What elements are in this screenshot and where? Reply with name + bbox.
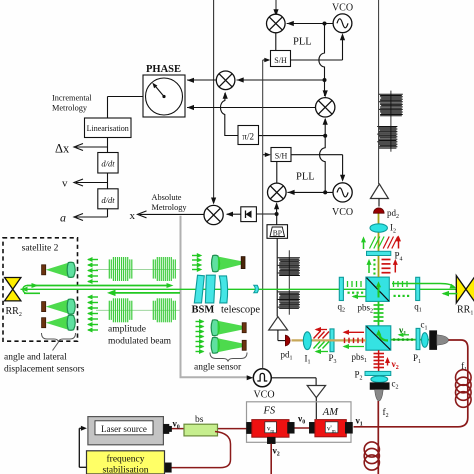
angle sensor 2 detector bar — [242, 340, 246, 350]
displacement sensor 3 lens — [67, 315, 75, 330]
fiber laser to FS — [169, 428, 248, 430]
wire J5 down to BP filter — [276, 214, 278, 225]
displacement sensor 2 detector bar — [42, 302, 46, 312]
P4 plate — [367, 251, 391, 255]
red beam below pbs1 — [378, 350, 380, 371]
Linearisation box — [85, 118, 132, 138]
fiber FS to AM — [289, 427, 316, 429]
spectrum hatch block left upper — [278, 258, 300, 276]
c2 lens — [371, 376, 388, 382]
laser source box — [88, 417, 163, 445]
frequency stabilisation box — [87, 451, 165, 474]
pbs1 cube — [366, 326, 391, 350]
fiber bs to freq stab — [171, 432, 231, 468]
angle sensor 1 detector bar — [242, 323, 246, 333]
VCO U9 (pulse) — [253, 369, 271, 387]
main beam line — [21, 288, 458, 290]
photodiode pd1 — [285, 335, 290, 346]
spectrum hatch block right upper — [379, 94, 403, 116]
svg-text:telescope: telescope — [221, 304, 260, 315]
displacement sensor 2 ray fan — [46, 300, 68, 314]
beam transmit line lower — [110, 292, 180, 294]
retroreflector RR2 — [5, 278, 21, 301]
svg-text:π/2: π/2 — [242, 132, 254, 142]
svg-text:d/dt: d/dt — [101, 159, 115, 169]
freq stab output connector — [163, 463, 171, 473]
mixer U1 (PLL1 phase detector) — [267, 14, 286, 33]
incoming wavefront arrows bottom group — [87, 295, 98, 333]
wire amplifier A1 to photodiode pd1 — [277, 330, 279, 341]
wire VCO U9 right to amplifier A3 — [271, 377, 316, 379]
beam between pbs2 and pbs1 — [378, 302, 380, 326]
svg-text:BSM: BSM — [192, 304, 215, 315]
wire J1 down to J2 with hop over S/H line — [319, 24, 325, 81]
fiber f2 vertical — [377, 401, 379, 474]
amplitude modulated packet 2a — [109, 298, 132, 322]
svg-text:BP: BP — [273, 228, 282, 237]
lateral sensor detector bar — [241, 257, 245, 269]
wire trigger into S/H B — [263, 154, 270, 156]
svg-text:S/H: S/H — [274, 56, 287, 65]
retroreflector RR1 — [456, 276, 474, 303]
spectrum stub line left — [288, 250, 290, 314]
AM modulator box — [315, 420, 346, 437]
wire mixer U5 output to PHASE at y=107.5 — [187, 107, 316, 109]
wire pd2 amplifier A2 long line up — [378, 0, 380, 184]
spectrum stub line right — [390, 91, 392, 152]
red diag hatch (I1-P3) — [314, 332, 330, 339]
BSM wedge 1 — [194, 275, 204, 303]
red arrow left (P3-pbs1) — [344, 331, 364, 333]
wire S/H B output to VCO U7 — [291, 154, 343, 156]
modulator outer box — [247, 402, 352, 443]
svg-text:VCO: VCO — [332, 3, 353, 14]
amplitude modulated packet 1a — [109, 257, 132, 281]
pbs2 cube — [366, 277, 389, 301]
svg-text:Metrology: Metrology — [52, 104, 88, 113]
mixer U3a (incremental) — [216, 71, 235, 90]
svg-text:angle sensor: angle sensor — [194, 362, 242, 372]
wire pi/2 box to J3 — [259, 135, 326, 137]
wire VCO U7 to mixer U8 — [287, 191, 333, 193]
c1 fiber collimator — [430, 331, 437, 350]
fiber f2 coil — [364, 442, 379, 470]
node J2 — [323, 78, 327, 82]
lateral sensor ray fan — [218, 257, 242, 271]
lateral sensor lens — [212, 255, 220, 271]
fiber f1 from c1 — [354, 340, 468, 427]
red up arrow (P4-pbs2) — [394, 261, 396, 273]
svg-text:stabilisation: stabilisation — [103, 465, 149, 474]
green diag hatch (I2-P4) — [370, 237, 385, 249]
wire amplifier A2 to photodiode pd2 — [378, 199, 380, 207]
RR2 beam U-turn — [23, 286, 27, 294]
green dashes between cubes — [374, 305, 384, 321]
a output arrow — [107, 209, 109, 217]
wire reference input line from top into mixer U4 — [213, 0, 215, 203]
svg-text:a: a — [60, 211, 66, 225]
angle sensor lens 2 — [211, 337, 219, 353]
svg-text:FS: FS — [263, 405, 276, 416]
phase meter box U6 — [143, 75, 185, 117]
amplitude modulated packet 2b — [153, 298, 175, 322]
svg-text:PHASE: PHASE — [146, 64, 181, 75]
wire VCO U9 up to S/H triggers — [262, 60, 264, 369]
svg-text:PLL: PLL — [296, 172, 315, 183]
amplifier A1 (pd1) — [269, 317, 288, 330]
node J4 — [323, 190, 327, 194]
amplitude modulated packet row1 baseline — [96, 269, 180, 271]
green up arrow (I2-P4) — [363, 239, 365, 250]
svg-text:v: v — [62, 178, 68, 190]
pbs2 internal up arrow — [378, 284, 380, 298]
P3 plate — [330, 329, 334, 352]
green diag hatch (I1-P3) — [314, 342, 330, 349]
svg-text:Absolute: Absolute — [152, 193, 182, 202]
displacement sensor 2 lens — [67, 299, 75, 314]
svg-text:Laser source: Laser source — [101, 424, 147, 434]
red diag hatch (I2-P4) — [383, 237, 398, 249]
photodiode pd2 — [374, 208, 385, 213]
pi/2 box — [238, 126, 259, 145]
beamsplitter bs box — [184, 424, 218, 436]
green arrow left under nu1 — [399, 334, 409, 336]
red dashes col (P4-pbs2) — [382, 260, 391, 273]
node J5 — [275, 212, 279, 216]
arrow bench to VCO U9 — [247, 375, 254, 380]
wire signal input from top into mixer U1 — [275, 0, 277, 15]
wire PHASE to Linearisation — [108, 96, 144, 98]
angle sensor lens 1 — [211, 320, 219, 336]
displacement sensor 1 lens — [67, 262, 75, 277]
P1 plate — [416, 328, 420, 349]
lateral sensor wavefront arrows — [192, 253, 202, 272]
laser output connector — [163, 424, 169, 433]
displacement sensor 3 ray fan — [46, 316, 68, 330]
I1 lens — [303, 332, 311, 350]
Delta-x output arrow — [76, 146, 108, 148]
brace under displacement sensors — [42, 333, 76, 342]
svg-text:VCO: VCO — [332, 207, 353, 218]
laser feedback wire — [78, 428, 80, 467]
wire VCO U2 output to mixer U1 with junction — [287, 23, 334, 25]
FS input connector — [247, 422, 254, 433]
BP filter box — [267, 225, 288, 239]
S/H box A — [271, 51, 291, 67]
telescope meniscus lens — [219, 276, 227, 303]
incoming wavefront arrows top group — [87, 257, 98, 284]
svg-text:S/H: S/H — [275, 152, 288, 161]
green dots on nu1 beam — [393, 338, 414, 341]
angle sensor 2 ray fan — [218, 338, 244, 352]
beam dots q2 to pbs2 — [348, 292, 364, 294]
green arrow left (P3-pbs1) — [344, 346, 364, 348]
wire quadrature arm from pi/2 junction up into U5 — [324, 119, 326, 136]
red arrow left (I1-P3) — [316, 329, 327, 331]
svg-text:d/dt: d/dt — [101, 195, 115, 205]
red up arrow (I2-P4) — [398, 238, 400, 249]
VCO U2 (PLL1) — [333, 14, 352, 33]
mixer U8 (PLL2 phase detector) — [268, 183, 287, 202]
wire BP down to amplifier A1 — [276, 238, 278, 316]
FS bottom connector — [267, 437, 275, 444]
green beam c1 to pbs1 — [391, 339, 429, 341]
displacement sensor 1 ray fan — [46, 263, 68, 277]
q1 waveplate — [416, 277, 420, 300]
wire diode to mixer U4 — [227, 213, 241, 215]
vertical beam pbs2 to P4 olive — [378, 214, 380, 278]
FS output connector — [288, 422, 295, 433]
angle sensor wavefront arrows — [196, 319, 205, 354]
beam ticks pbs2 to q1 — [394, 281, 408, 287]
svg-text:PLL: PLL — [293, 37, 312, 48]
svg-text:displacement sensors: displacement sensors — [4, 365, 85, 375]
red ticks (P3-pbs1) — [345, 338, 363, 343]
mixer U5 (quadrature) — [316, 98, 335, 117]
c1 lens — [422, 333, 429, 348]
wire d/dt1 to d/dt2 — [107, 173, 109, 189]
diode box D1 — [241, 207, 257, 222]
wire S/H A to VCO U2 — [291, 59, 343, 61]
svg-text:angle and lateral: angle and lateral — [4, 353, 67, 363]
P2 plate — [365, 371, 391, 375]
svg-text:frequency: frequency — [107, 453, 145, 464]
S/H box B — [271, 148, 291, 162]
node J3 — [323, 134, 327, 138]
FS modulator box — [252, 420, 289, 438]
q2 waveplate — [339, 277, 343, 300]
fiber FS down — [270, 444, 272, 474]
AM input connector — [309, 422, 316, 433]
wire mixer U1 to S/H A — [275, 33, 277, 51]
red dashes below pbs1 — [374, 354, 385, 368]
beam return line upper — [27, 285, 170, 287]
satellite 2 dashed box — [3, 238, 78, 341]
svg-text:satellite 2: satellite 2 — [22, 244, 59, 254]
amplitude modulated packet 1b — [153, 257, 175, 281]
beam arrow left below q2 row — [353, 296, 366, 298]
c2 fiber collimator — [370, 383, 389, 390]
beam line q1 to RR1 upper — [392, 283, 440, 285]
wire trigger into S/H A — [263, 59, 269, 61]
AM output connector — [345, 422, 352, 433]
displacement sensor 1 detector bar — [42, 265, 46, 275]
wire mixer U8 to S/H B — [276, 162, 278, 184]
d/dt box 2 — [98, 189, 118, 209]
green dots col (P4-pbs2) — [373, 259, 375, 275]
amplitude modulated packet row2 baseline — [96, 309, 180, 311]
BSM wedge 2 — [205, 275, 215, 303]
svg-text:amplitude: amplitude — [108, 325, 146, 335]
svg-text:modulated beam: modulated beam — [108, 337, 172, 347]
red up arrow nu2 — [387, 359, 389, 366]
svg-text:Metrology: Metrology — [152, 203, 188, 212]
amplifier A2 (pd2) — [370, 184, 388, 199]
svg-text:VCO: VCO — [253, 390, 274, 401]
fiber f1 coil — [456, 370, 472, 408]
wire J5 up into mixer U8 — [276, 204, 278, 215]
beam line RR1 return with arrow — [443, 293, 458, 295]
I2 lens — [370, 224, 387, 232]
wire Linearisation down chain — [107, 138, 109, 153]
node J1 — [323, 22, 327, 26]
amplifier A3 (modulation drive) — [307, 386, 325, 398]
tan beam pd1 to pbs1 — [292, 339, 367, 341]
mixer U4 (absolute metrology) — [204, 205, 223, 224]
optical bench box edge — [181, 216, 249, 377]
svg-text:Δx: Δx — [55, 142, 70, 156]
wire pi/2 to mixer U3a with hop — [220, 93, 238, 136]
field stop element — [254, 285, 259, 292]
svg-text:AM: AM — [322, 407, 339, 418]
wire J3 down to J4 with hop over S/H2 line — [320, 136, 326, 193]
VCO U7 (PLL2) — [333, 183, 352, 202]
green arrow left (I1-P3) — [316, 351, 328, 353]
angle sensor 1 ray fan — [218, 321, 244, 335]
svg-text:bs: bs — [195, 415, 204, 425]
wire J2 down into mixer U5 top — [324, 80, 326, 96]
svg-text:x: x — [130, 210, 136, 222]
green up arrow left of beam (P4-pbs2) — [368, 261, 370, 273]
pbs1 internal bend arrow — [379, 332, 388, 341]
d/dt box 1 — [98, 153, 118, 174]
v output arrow — [76, 182, 108, 184]
wire diode to node J5 — [256, 213, 276, 215]
brace under angle sensor — [210, 353, 247, 362]
svg-text:Incremental: Incremental — [52, 94, 92, 103]
RR1 beam U-turn with arrow — [440, 284, 455, 288]
spectrum hatch block left lower — [278, 292, 300, 309]
svg-text:Linearisation: Linearisation — [87, 124, 129, 133]
wire amplifier A3 down to AM modulator — [315, 398, 317, 419]
beam ticks q2 to pbs2 — [348, 281, 362, 287]
wire J2 to mixer U3a output toward PHASE at y=80 — [237, 79, 325, 81]
beam dots pbs2 to q1 — [394, 295, 410, 297]
spectrum hatch block right lower — [377, 127, 397, 149]
displacement sensor 3 detector bar — [42, 318, 46, 328]
x output arrow — [140, 213, 205, 215]
